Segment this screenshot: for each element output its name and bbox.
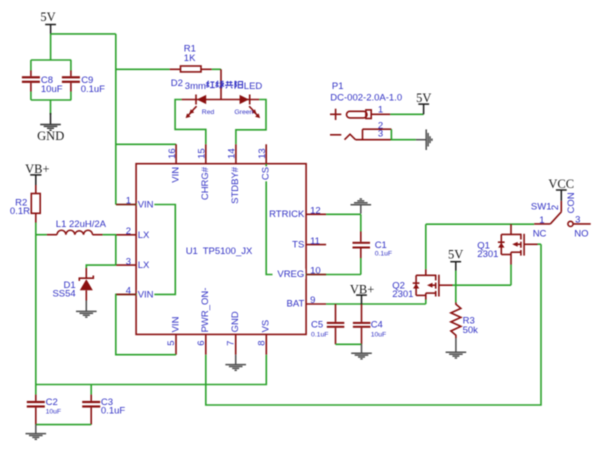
- pin 12: [269, 206, 326, 221]
- inductor L1: [47, 230, 103, 234]
- svg-text:L1 22uH/2A: L1 22uH/2A: [56, 219, 107, 230]
- ground under D1: [76, 301, 97, 318]
- ground GND flag under C8: [37, 113, 64, 143]
- capacitor C8: [22, 71, 40, 92]
- svg-text:3: 3: [126, 256, 131, 267]
- capacitor C1: [353, 214, 371, 274]
- op-amp U1 TP5100 body: [136, 164, 306, 335]
- wire C5 to C4 bottom: [336, 343, 362, 345]
- resistor R2: [31, 185, 40, 223]
- pin 3: [116, 256, 150, 271]
- svg-text:TP5100_JX: TP5100_JX: [203, 246, 253, 257]
- wire 5V down to C8/C9 rail: [50, 34, 52, 60]
- pin 4: [116, 286, 154, 301]
- svg-text:VCC: VCC: [548, 177, 574, 191]
- svg-text:12: 12: [310, 206, 321, 217]
- svg-text:10uF: 10uF: [41, 84, 63, 95]
- ground under C2: [26, 425, 47, 440]
- transistor Q2: [413, 269, 453, 299]
- wire GND stem: [50, 100, 52, 115]
- diode D1 SS54 schottky: [79, 268, 93, 301]
- pin 11: [292, 236, 326, 251]
- svg-text:3mm: 3mm: [185, 81, 206, 92]
- power flag 5V above R3: [448, 248, 463, 271]
- wire D2 green cathode to pin14: [236, 100, 266, 145]
- svg-text:STDBY#: STDBY#: [230, 166, 241, 204]
- svg-text:VS: VS: [261, 320, 272, 333]
- svg-text:10uF: 10uF: [46, 408, 62, 415]
- switch SW1: [534, 201, 591, 227]
- svg-text:2: 2: [126, 226, 131, 237]
- svg-text:4: 4: [126, 286, 131, 297]
- svg-text:2301: 2301: [477, 249, 498, 260]
- svg-text:0.1uF: 0.1uF: [375, 251, 392, 258]
- wire C8/C9 top rail: [31, 59, 71, 61]
- power flag 5V at P1: [416, 91, 431, 114]
- wire C8 bottom lead: [30, 92, 32, 101]
- svg-text:2: 2: [550, 205, 561, 210]
- svg-text:RTRICK: RTRICK: [269, 209, 305, 220]
- pin 10: [273, 266, 327, 281]
- svg-text:Red: Red: [202, 109, 215, 116]
- wire pin12 RTRICK: [326, 213, 361, 215]
- pin 1: [116, 196, 154, 211]
- svg-text:14: 14: [227, 148, 238, 159]
- dual LED D2: [182, 69, 261, 118]
- power flag VB+ left: [25, 162, 49, 185]
- wire Q1 gate to bottom run: [538, 243, 542, 245]
- pin 13: [257, 144, 272, 181]
- value 3mm red-green LED text: [185, 81, 263, 92]
- wire pin1 VIN to pin4 VIN inside U1: [116, 205, 176, 295]
- svg-text:CS: CS: [261, 167, 272, 180]
- wire Q1 source down to node: [510, 265, 512, 286]
- svg-text:0.1uF: 0.1uF: [81, 84, 105, 95]
- wire R1 to D2 anode: [212, 68, 221, 70]
- svg-text:LX: LX: [138, 230, 150, 241]
- wire branch to pin16: [116, 143, 176, 145]
- svg-text:P1: P1: [332, 81, 344, 92]
- svg-text:C2: C2: [46, 397, 58, 408]
- pin 14: [227, 144, 242, 204]
- wire Q2 source to BAT line: [425, 300, 427, 305]
- svg-text:13: 13: [257, 148, 268, 159]
- svg-text:5V: 5V: [40, 10, 55, 24]
- svg-text:5: 5: [166, 341, 177, 346]
- pin 8: [256, 320, 271, 355]
- svg-text:2301: 2301: [392, 289, 413, 300]
- wire pin8 VS to left rail: [36, 355, 266, 385]
- pin 16: [167, 144, 182, 182]
- ground right of P1: [416, 129, 432, 150]
- svg-text:0.1uF: 0.1uF: [101, 405, 125, 416]
- capacitor C4: [353, 304, 371, 344]
- wire CS to VREG inside U1: [266, 164, 361, 275]
- svg-text:VIN: VIN: [138, 200, 154, 211]
- transistor Q1: [498, 224, 538, 264]
- pin 2: [116, 226, 150, 241]
- svg-text:15: 15: [197, 148, 208, 159]
- svg-text:1: 1: [539, 215, 544, 226]
- power flag VB+ right: [350, 283, 374, 305]
- svg-text:GND: GND: [230, 311, 241, 332]
- wire pin6 to Q1 gate long bottom run: [206, 244, 541, 405]
- ground under C4: [351, 344, 372, 359]
- power flag 5V top-left: [40, 10, 56, 34]
- wire branch to R1: [116, 68, 170, 70]
- svg-text:TS: TS: [292, 239, 304, 250]
- wire P1 pin2 pin3 to ground: [391, 129, 416, 140]
- svg-text:0.1uF: 0.1uF: [311, 331, 328, 338]
- wire to L1 left: [36, 234, 47, 236]
- wire D2 red cathode to pin15: [175, 100, 206, 145]
- svg-text:1K: 1K: [184, 53, 196, 64]
- svg-text:DC-002-2.0A-1.0: DC-002-2.0A-1.0: [330, 92, 402, 103]
- svg-text:VREG: VREG: [277, 269, 304, 280]
- svg-text:BAT: BAT: [287, 299, 305, 310]
- capacitor C5: [327, 304, 345, 344]
- svg-text:D2: D2: [171, 78, 183, 89]
- wire 5V to vertical rail: [51, 33, 116, 35]
- wire NC line Q2 to SW1: [426, 223, 534, 225]
- svg-text:PWR_ON-: PWR_ON-: [200, 288, 211, 333]
- svg-text:VIN: VIN: [170, 316, 181, 332]
- svg-text:3: 3: [378, 128, 383, 139]
- resistor R3: [451, 303, 461, 339]
- pin 5: [166, 316, 181, 354]
- svg-text:NO: NO: [574, 229, 588, 240]
- svg-text:8: 8: [256, 341, 267, 346]
- wire Q2 drain up to NC line: [425, 224, 427, 269]
- capacitor C2: [27, 385, 45, 425]
- svg-text:VIN: VIN: [138, 289, 154, 300]
- svg-text:VB+: VB+: [25, 162, 49, 176]
- svg-text:1: 1: [378, 105, 383, 116]
- svg-text:LED: LED: [244, 81, 263, 92]
- svg-text:VIN: VIN: [170, 167, 181, 183]
- wire C9 bottom lead: [70, 92, 72, 101]
- resistor R1: [170, 66, 212, 72]
- svg-text:6: 6: [196, 341, 207, 346]
- wire 5V stem to node: [455, 271, 457, 303]
- svg-text:C1: C1: [375, 240, 387, 251]
- svg-text:U1: U1: [186, 246, 198, 257]
- pin 7: [226, 311, 241, 355]
- pin 9: [287, 295, 327, 310]
- svg-text:11: 11: [310, 236, 320, 247]
- pin 15: [197, 144, 212, 200]
- svg-text:1: 1: [126, 196, 131, 207]
- connector P1 plus terminal: [330, 109, 390, 120]
- wire Q2 gate node to Q1 source: [453, 284, 512, 286]
- svg-text:10: 10: [310, 266, 321, 277]
- wire pin3 to D1: [86, 265, 116, 268]
- svg-text:5V: 5V: [416, 91, 431, 105]
- ground under pin7: [225, 355, 246, 371]
- svg-text:3: 3: [575, 215, 580, 226]
- svg-text:0.1R: 0.1R: [10, 206, 30, 217]
- svg-text:CHRG#: CHRG#: [200, 166, 211, 200]
- svg-text:LX: LX: [138, 260, 150, 271]
- svg-text:NC: NC: [533, 229, 547, 240]
- svg-text:50k: 50k: [463, 325, 479, 336]
- svg-text:5V: 5V: [448, 248, 463, 262]
- ground under R3: [446, 338, 467, 358]
- pin 6: [196, 288, 211, 355]
- wire pin9 BAT line: [326, 303, 426, 305]
- wire C8/C9 bottom rail: [31, 99, 71, 101]
- svg-text:C4: C4: [371, 320, 383, 331]
- wire C2 to C3 bottom rail: [36, 424, 91, 426]
- wire C9 top lead: [70, 60, 72, 71]
- ground above pin12 wire: [351, 199, 372, 214]
- svg-text:GND: GND: [37, 129, 64, 143]
- svg-text:Green: Green: [234, 109, 253, 116]
- wire pin4 to pin5: [116, 294, 176, 354]
- svg-text:SW1: SW1: [531, 202, 552, 213]
- wire R2 down the left column: [35, 223, 37, 385]
- svg-text:CON: CON: [566, 192, 577, 213]
- svg-text:7: 7: [226, 341, 237, 346]
- svg-text:C5: C5: [311, 320, 323, 331]
- wire C8 top lead: [30, 60, 32, 71]
- svg-text:16: 16: [167, 148, 178, 159]
- wire P1 pin1 to 5V: [390, 113, 423, 115]
- connector P1 minus terminal: [330, 129, 391, 140]
- wire L1 to pin2: [103, 234, 117, 236]
- svg-text:10uF: 10uF: [371, 331, 387, 338]
- svg-text:9: 9: [310, 295, 315, 306]
- svg-text:SS54: SS54: [52, 289, 75, 300]
- capacitor C3: [82, 385, 100, 425]
- power flag VCC: [548, 177, 574, 201]
- wire 5V vertical rail to pin1: [115, 34, 117, 205]
- wire pin2 to pin3: [115, 235, 117, 265]
- capacitor C9: [62, 71, 80, 92]
